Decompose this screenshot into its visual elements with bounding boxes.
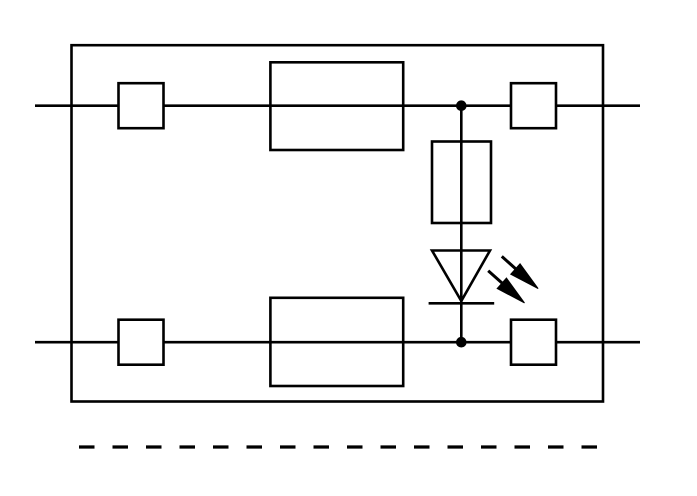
clamp contact top-right (511, 83, 556, 128)
resistor R1 (IEC box, wire through) (432, 142, 491, 224)
wire vertical branch (460, 106, 463, 343)
top conductor wire (35, 104, 640, 107)
bottom conductor wire (35, 341, 640, 344)
clamp contact bottom-right (511, 320, 556, 365)
dashed rail/marker line (79, 445, 597, 448)
clamp contact bottom-left (119, 320, 164, 365)
LED D1 anode triangle (432, 251, 490, 302)
jumper/test contact block bottom (270, 298, 403, 386)
terminal block housing outline (72, 45, 604, 401)
node junction top (456, 100, 467, 111)
LED D1 cathode bar (429, 302, 495, 305)
jumper/test contact block top (270, 62, 403, 150)
LED light emission arrow upper (502, 256, 538, 288)
clamp contact top-left (119, 83, 164, 128)
node junction bottom (456, 337, 467, 348)
LED light emission arrow lower (488, 271, 524, 303)
